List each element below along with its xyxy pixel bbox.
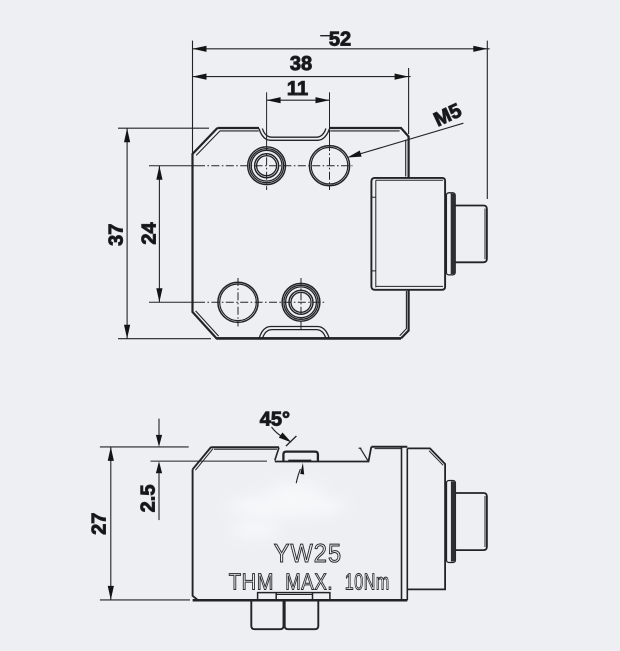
plug top view — [455, 206, 487, 263]
side plug — [455, 493, 487, 550]
centerline vertical top-right hole — [329, 92, 331, 190]
centerline row2 — [149, 301, 325, 303]
centerline vertical bottom-right hole — [300, 278, 302, 331]
threaded hole bottom-right — [282, 283, 320, 321]
threaded hole top-left — [248, 147, 286, 185]
side connector block — [407, 448, 445, 589]
tab on top — [283, 452, 318, 462]
side flange strip — [447, 481, 456, 563]
svg-text:52: 52 — [329, 28, 351, 50]
connector block top view — [371, 178, 445, 290]
bottom groove notch — [259, 327, 329, 339]
svg-text:THM: THM — [229, 568, 275, 594]
svg-text:2.5: 2.5 — [137, 484, 159, 512]
dimension 38 — [193, 68, 411, 134]
svg-text:11: 11 — [287, 78, 308, 100]
svg-text:45°: 45° — [260, 409, 290, 431]
plain hole bottom-left — [218, 282, 258, 322]
svg-text:24: 24 — [139, 222, 161, 245]
bottom slot plate — [258, 593, 330, 601]
dimension 27 — [100, 447, 190, 600]
svg-text:37: 37 — [106, 224, 128, 246]
tab leader arrow — [296, 463, 304, 483]
svg-text:MAX.: MAX. — [285, 568, 333, 594]
body inner edge highlights — [196, 131, 407, 336]
svg-text:38: 38 — [290, 53, 312, 75]
dimension 37 — [118, 128, 211, 339]
top groove notch — [259, 129, 330, 141]
dimension 52 — [193, 36, 490, 199]
bottom tab right — [285, 600, 319, 629]
centerline row1 — [149, 165, 353, 167]
dimension 24 — [156, 166, 162, 303]
svg-text:YW25: YW25 — [274, 538, 343, 568]
45 degree callout — [272, 427, 297, 446]
groove back line + 2.5 extension — [151, 460, 268, 462]
side body outline — [193, 447, 408, 601]
faint highlight smudges — [227, 483, 347, 538]
plain hole top-right M5 — [309, 146, 349, 186]
svg-text:27: 27 — [89, 513, 111, 535]
centerline vertical top-left hole — [266, 92, 268, 190]
svg-text:10Nm: 10Nm — [345, 568, 390, 594]
dimension 2.5 — [156, 419, 162, 520]
flange strip top view — [446, 193, 455, 275]
leader M5 — [347, 123, 463, 157]
bottom tab left — [251, 600, 283, 629]
dimension 11 — [267, 97, 330, 103]
body outline top view — [193, 128, 409, 338]
centerline vertical bottom-left hole — [237, 278, 239, 327]
